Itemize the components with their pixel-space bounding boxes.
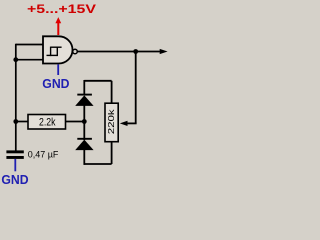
op-amp / Schmitt NAND gate U1 body	[43, 36, 73, 63]
wire: gate output horizontal	[77, 51, 160, 53]
wire: from output junction down to wiper	[135, 52, 137, 124]
wire: top input from left rail to gate	[16, 44, 44, 46]
node: middle junction dot	[82, 119, 87, 124]
VCC arrow (red, up)	[55, 17, 61, 35]
svg-text:GND: GND	[1, 172, 28, 187]
wire: left rail to resistor R1	[16, 121, 28, 123]
wire: bottom node horizontal	[84, 163, 111, 165]
wire: diode branch top segment	[83, 80, 85, 95]
svg-text:GND: GND	[42, 76, 69, 91]
node: junction dot on left rail	[13, 119, 18, 124]
svg-text:0,47 µF: 0,47 µF	[28, 149, 59, 160]
wire: left rail vertical	[15, 44, 17, 151]
svg-text:2.2k: 2.2k	[39, 117, 56, 129]
output arrowhead	[160, 49, 168, 54]
hysteresis symbol inside gate	[47, 47, 62, 57]
svg-text:220k: 220k	[106, 108, 116, 134]
resistor R1 2.2k body	[28, 115, 66, 130]
wire: top node horizontal	[84, 80, 111, 82]
diode D2 (cathode up)	[75, 139, 93, 150]
wire: bottom input from left rail to gate	[16, 59, 44, 61]
wire: pot bottom lead	[111, 142, 113, 164]
capacitor C1 0.47uF plates	[6, 150, 23, 153]
wiper arrowhead into potentiometer	[120, 121, 128, 126]
node: output junction	[133, 49, 138, 54]
inverter bubble on gate output	[73, 49, 78, 54]
node: junction dot inputs tied	[13, 57, 18, 62]
wire: wiper horizontal	[127, 122, 137, 124]
potentiometer R2 220k body	[105, 103, 118, 142]
wire: diode branch bottom segment	[83, 149, 85, 165]
wire: resistor R1 to diode branch	[66, 121, 85, 123]
svg-text:+5...+15V: +5...+15V	[27, 2, 97, 16]
diode D1 (cathode up)	[75, 95, 93, 106]
GND stub below capacitor (blue)	[14, 159, 16, 171]
wire: pot top lead	[111, 81, 113, 103]
wire: diode branch middle segment	[83, 105, 85, 140]
GND stub under gate (blue)	[57, 64, 59, 75]
